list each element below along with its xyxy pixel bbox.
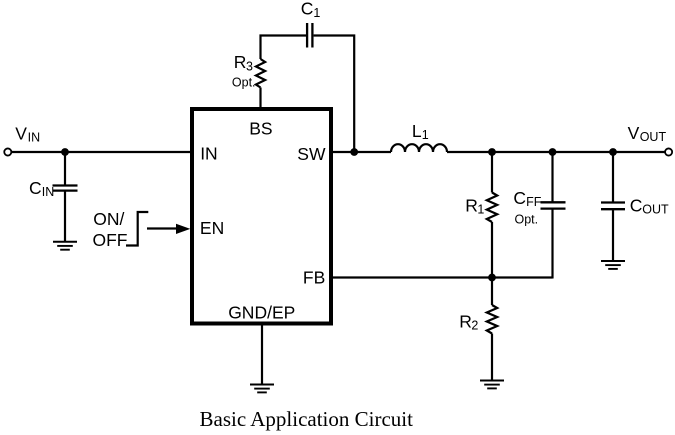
svg-text:3: 3 — [246, 59, 253, 73]
svg-text:C: C — [513, 188, 526, 208]
svg-text:V: V — [15, 123, 27, 143]
svg-text:OFF: OFF — [93, 230, 128, 250]
svg-text:GND/EP: GND/EP — [228, 303, 295, 323]
svg-text:R: R — [465, 195, 478, 215]
svg-text:1: 1 — [313, 6, 320, 20]
svg-text:1: 1 — [477, 203, 484, 217]
svg-text:OUT: OUT — [642, 202, 669, 216]
svg-text:FB: FB — [303, 268, 325, 288]
svg-text:SW: SW — [297, 144, 326, 164]
svg-text:IN: IN — [200, 144, 218, 164]
svg-text:C: C — [630, 195, 643, 215]
svg-text:1: 1 — [422, 128, 429, 142]
svg-text:FF: FF — [526, 195, 542, 209]
svg-text:ON/: ON/ — [93, 209, 124, 229]
svg-text:R: R — [234, 52, 247, 72]
svg-text:BS: BS — [249, 118, 272, 138]
svg-text:C: C — [301, 0, 314, 19]
svg-text:C: C — [29, 178, 42, 198]
svg-text:2: 2 — [471, 319, 478, 333]
svg-text:Opt.: Opt. — [515, 212, 539, 226]
svg-text:Opt.: Opt. — [232, 75, 256, 89]
svg-text:OUT: OUT — [640, 130, 667, 144]
svg-text:Basic Application Circuit: Basic Application Circuit — [200, 407, 414, 431]
svg-text:V: V — [628, 123, 640, 143]
svg-text:L: L — [412, 121, 422, 141]
svg-text:IN: IN — [42, 185, 55, 199]
svg-text:IN: IN — [28, 130, 40, 144]
svg-text:EN: EN — [200, 218, 224, 238]
svg-text:R: R — [459, 311, 472, 331]
